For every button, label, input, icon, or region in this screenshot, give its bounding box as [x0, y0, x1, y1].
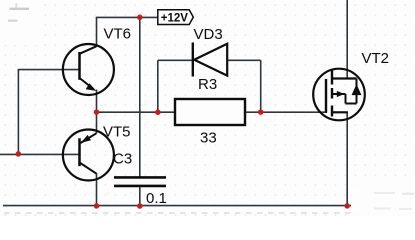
- wire: bus right segment to gate: [245, 111, 327, 113]
- diode VD3: [193, 43, 227, 77]
- wire: VT2 source down: [346, 112, 348, 206]
- +12V supply flag: [158, 10, 194, 25]
- wire: VT2 drain from top edge: [346, 0, 348, 79]
- transistor VT2 (MOSFET): [313, 69, 365, 121]
- wire: +12V branch down to C3: [139, 17, 141, 176]
- wire: diode left lead: [158, 59, 193, 61]
- svg-text:0.1: 0.1: [146, 190, 167, 207]
- wire: VT6 collector up: [96, 17, 98, 47]
- transistor VT5: [63, 130, 114, 181]
- wire: C3 bottom to bottom rail: [139, 186, 141, 205]
- svg-text:VT5: VT5: [103, 123, 131, 140]
- svg-text:C3: C3: [113, 150, 132, 167]
- wire: VT5 collector down to bottom rail: [96, 173, 98, 206]
- resistor R3: [175, 99, 245, 125]
- junction dot: R3/VD3 left node: [155, 109, 161, 115]
- junction dot: R3/VD3 right node: [258, 109, 264, 115]
- transistor VT6: [63, 44, 114, 95]
- junction dot: VT2 source to bottom rail: [344, 203, 350, 209]
- svg-text:33: 33: [200, 130, 217, 147]
- wire: diode left branch vertical: [157, 60, 159, 112]
- svg-text:+12V: +12V: [161, 13, 189, 25]
- svg-text:VT2: VT2: [362, 50, 390, 67]
- junction dot: C3 to bottom rail: [137, 203, 143, 209]
- wire: vertical x=18 from VT6 base to VT5 base: [17, 70, 19, 155]
- junction dot: input node at VT6/VT5 bases: [16, 151, 22, 157]
- erased patch top-left: [0, 0, 37, 45]
- wire: diode right branch vertical: [260, 60, 262, 112]
- wire: VT6 emitter down to bus: [96, 90, 98, 113]
- wire: VT5 emitter up to bus: [96, 112, 98, 133]
- junction dot: VT5 collector to bottom rail: [94, 203, 100, 209]
- junction dot: +12V rail node: [137, 15, 143, 21]
- wire: VT5 base lead: [18, 153, 79, 155]
- wire: VT6 base lead: [18, 69, 79, 71]
- svg-text:VD3: VD3: [194, 26, 223, 43]
- wire: diode right lead: [227, 59, 261, 61]
- wire: bus left segment: [97, 111, 176, 113]
- wire: top rail to +12V: [96, 16, 159, 18]
- svg-text:VT6: VT6: [104, 25, 132, 42]
- svg-text:R3: R3: [198, 76, 217, 93]
- erased patch bottom-right: [355, 178, 415, 216]
- junction dot: driver output node at VT6/VT5 emitters: [94, 109, 100, 115]
- wire: bottom rail: [3, 205, 351, 207]
- wire: left stub to VT5 base junction: [0, 153, 18, 155]
- faint dashed boundary line bottom: [4, 212, 415, 214]
- capacitor C3: [114, 177, 166, 186]
